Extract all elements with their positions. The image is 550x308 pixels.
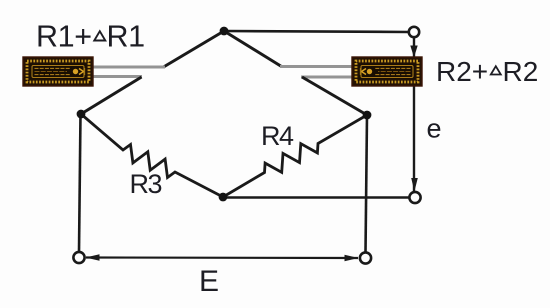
svg-text:e: e [427, 114, 442, 144]
E arrowhead right (points right) [345, 255, 359, 261]
E measurement line (horizontal double arrow) [86, 256, 358, 259]
delta triangle of R1 label [94, 31, 105, 40]
wire: top node to R1 upper lead (diagonal) [164, 31, 225, 67]
resistor R4 (bottom node to right node) [223, 115, 367, 197]
terminal e- (bottom right open circle) [409, 192, 420, 203]
wire: top node to R2 upper lead (diagonal) [224, 31, 282, 67]
svg-text:E: E [199, 265, 219, 298]
node top (junction dot) [220, 27, 229, 36]
terminal E right (open circle) [360, 252, 371, 263]
svg-text:R1: R1 [107, 20, 145, 54]
E arrowhead left (points left) [86, 254, 100, 260]
wire: R2 lower lead (gray) [301, 76, 353, 79]
svg-text:R3: R3 [130, 169, 162, 199]
wire: R2 upper lead (gray) [280, 65, 353, 68]
svg-text:R2: R2 [503, 56, 539, 87]
wire: top node to top-right terminal [224, 31, 409, 32]
strain gauge R2 (right, mirrored) [352, 57, 422, 86]
wire: bottom node to e bottom terminal [223, 196, 409, 198]
wire: R1 lower lead to left node (diagonal) [81, 77, 142, 114]
node right (junction dot) [363, 111, 372, 120]
e arrowhead top (points down) [410, 46, 417, 58]
wire: R1 upper lead (gray) [92, 66, 165, 69]
e arrowhead bottom (points down) [411, 178, 418, 192]
svg-text:R2+: R2+ [436, 56, 488, 87]
svg-text:R1+: R1+ [36, 20, 92, 54]
wire: right node down to E right terminal [366, 115, 368, 253]
terminal e+ (top right open circle) [409, 27, 419, 37]
resistor R3 (left node to bottom node) [81, 114, 223, 197]
e measurement line (vertical, behind R2 gauge) [413, 37, 415, 191]
node bottom (junction dot) [219, 193, 228, 202]
terminal E left (open circle) [73, 252, 84, 263]
wire: left node down to E left terminal [79, 114, 81, 252]
strain gauge R1 (left) [23, 57, 93, 86]
wire: R2 lower lead to right node (diagonal) [302, 77, 367, 115]
node left (junction dot) [77, 110, 86, 119]
delta triangle of R2 label [491, 66, 501, 74]
wire: R1 lower lead (gray) [92, 75, 142, 78]
svg-text:R4: R4 [261, 121, 294, 151]
